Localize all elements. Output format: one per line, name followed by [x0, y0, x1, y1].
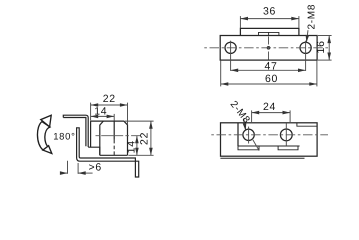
fixed leaf (L-shape bottom) — [77, 128, 139, 177]
svg-text:36: 36 — [263, 6, 276, 18]
hole right (top view) — [300, 42, 311, 53]
label 2-M8 (top view) leader — [306, 30, 308, 42]
horizontal center line (axis) — [204, 47, 329, 49]
vertical center line through dot — [268, 37, 270, 67]
hinge block outline — [91, 121, 128, 155]
svg-text:14: 14 — [125, 140, 137, 153]
svg-text:22: 22 — [138, 132, 150, 145]
hole crosshair / extension lines for 47 — [231, 41, 306, 71]
notch left — [238, 146, 259, 150]
internal line A — [238, 145, 300, 147]
lower leaf edge line — [220, 157, 304, 159]
label 2-M8 (bottom view) leader — [244, 119, 259, 151]
svg-text:60: 60 — [265, 73, 278, 85]
hole left (top view) — [225, 42, 236, 53]
dim 22 right vertical — [150, 121, 152, 155]
svg-text:24: 24 — [263, 101, 276, 113]
notch right — [278, 146, 298, 150]
raised tab — [240, 28, 299, 35]
hole right (bottom view) — [280, 129, 292, 141]
center dot — [267, 46, 271, 50]
bottom view axis — [211, 134, 328, 136]
inner solid edge — [113, 121, 115, 140]
dim 14 (top of side view) — [91, 114, 115, 121]
side view axis line — [96, 135, 141, 137]
hidden hole dashed — [113, 140, 115, 155]
dim >6 — [61, 161, 92, 174]
svg-text:>6: >6 — [89, 162, 102, 174]
inner vertical line left — [237, 123, 239, 146]
dim 22 (top of side view) — [91, 103, 128, 125]
plate outline — [220, 36, 317, 61]
knuckle divider — [268, 32, 270, 35]
dim 14 right vertical — [136, 136, 138, 156]
svg-text:22: 22 — [103, 93, 116, 105]
hole crosshairs vertical — [249, 123, 287, 146]
dim 47 line — [231, 69, 306, 71]
dim 24 — [252, 110, 291, 123]
plate outline — [221, 123, 318, 156]
block bottom — [100, 154, 128, 156]
dim 60 extensions — [221, 61, 317, 87]
rotation arrow 180 — [37, 115, 51, 153]
inner knuckle chamfer edge — [100, 121, 104, 155]
svg-text:2-M8: 2-M8 — [228, 99, 252, 126]
svg-text:2-M8: 2-M8 — [306, 4, 317, 30]
dim 16 extensions — [318, 36, 332, 61]
svg-text:47: 47 — [264, 60, 277, 72]
knuckle inner rect — [259, 32, 279, 35]
top-right step — [297, 123, 317, 126]
svg-text:180°: 180° — [53, 132, 75, 143]
flipped leaf: top horizontal strip with bend down — [63, 115, 127, 155]
svg-text:14: 14 — [94, 106, 107, 118]
svg-text:16: 16 — [315, 40, 327, 53]
hole left (bottom view) — [243, 129, 254, 140]
right dims extensions — [125, 121, 154, 155]
notch floor — [88, 147, 100, 155]
extension+dim: 36 — [240, 16, 299, 28]
